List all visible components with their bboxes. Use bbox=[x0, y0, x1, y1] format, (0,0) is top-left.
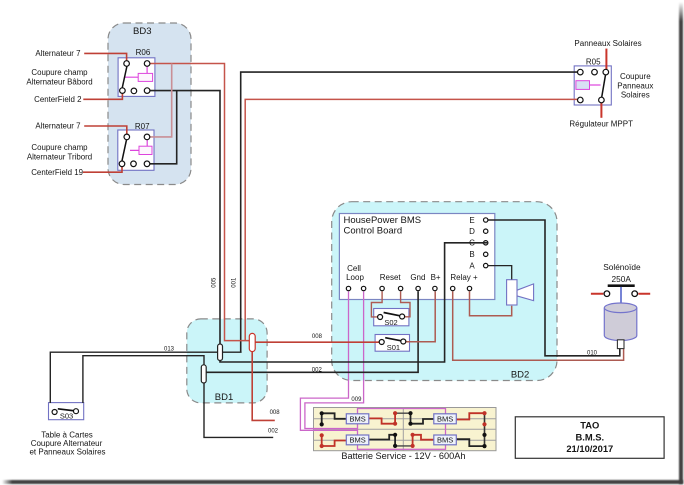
svg-text:Coupure champ: Coupure champ bbox=[31, 143, 88, 152]
svg-text:Alternateur Tribord: Alternateur Tribord bbox=[27, 153, 92, 162]
svg-text:Solaires: Solaires bbox=[621, 91, 650, 100]
svg-text:R05: R05 bbox=[586, 57, 601, 66]
svg-text:BMS: BMS bbox=[437, 414, 453, 423]
svg-text:Control Board: Control Board bbox=[344, 226, 403, 237]
svg-text:S01: S01 bbox=[387, 343, 400, 352]
svg-text:Coupure champ: Coupure champ bbox=[31, 68, 88, 77]
svg-text:Alternateur 7: Alternateur 7 bbox=[35, 122, 80, 131]
svg-text:002: 002 bbox=[268, 428, 279, 434]
svg-text:Reset: Reset bbox=[380, 273, 402, 282]
svg-text:TAO: TAO bbox=[580, 420, 599, 431]
svg-text:et Panneaux Solaires: et Panneaux Solaires bbox=[29, 448, 105, 457]
svg-text:BMS: BMS bbox=[349, 436, 365, 445]
svg-text:Loop: Loop bbox=[346, 273, 364, 282]
svg-text:Solénoïde: Solénoïde bbox=[603, 262, 641, 272]
svg-text:008: 008 bbox=[270, 410, 281, 416]
svg-text:001: 001 bbox=[232, 277, 238, 288]
svg-text:250A: 250A bbox=[612, 274, 632, 284]
svg-text:Alternateur Bâbord: Alternateur Bâbord bbox=[26, 78, 92, 87]
svg-text:BMS: BMS bbox=[349, 414, 365, 423]
svg-text:005: 005 bbox=[211, 277, 217, 288]
svg-text:Régulateur MPPT: Régulateur MPPT bbox=[569, 120, 633, 129]
svg-text:C: C bbox=[469, 239, 475, 248]
svg-text:E: E bbox=[469, 216, 474, 225]
svg-text:Panneaux Solaires: Panneaux Solaires bbox=[574, 39, 641, 48]
svg-text:010: 010 bbox=[587, 350, 598, 356]
svg-text:B: B bbox=[469, 250, 474, 259]
svg-text:013: 013 bbox=[164, 346, 175, 352]
svg-text:S02: S02 bbox=[384, 318, 397, 327]
svg-text:R06: R06 bbox=[136, 48, 151, 57]
svg-text:S03: S03 bbox=[60, 412, 73, 421]
svg-text:D: D bbox=[469, 227, 475, 236]
svg-text:BD3: BD3 bbox=[133, 26, 151, 37]
svg-text:21/10/2017: 21/10/2017 bbox=[566, 443, 613, 454]
svg-text:Coupure: Coupure bbox=[620, 72, 651, 81]
svg-text:Batterie Service - 12V - 600Ah: Batterie Service - 12V - 600Ah bbox=[341, 451, 465, 461]
svg-text:Gnd: Gnd bbox=[410, 273, 425, 282]
svg-text:BMS: BMS bbox=[437, 436, 453, 445]
svg-text:Panneaux: Panneaux bbox=[617, 81, 653, 90]
svg-text:Alternateur 7: Alternateur 7 bbox=[35, 49, 80, 58]
svg-text:BD2: BD2 bbox=[511, 370, 529, 381]
svg-text:B.M.S.: B.M.S. bbox=[575, 432, 604, 443]
svg-text:CenterField 19: CenterField 19 bbox=[31, 168, 83, 177]
svg-text:002: 002 bbox=[312, 367, 323, 373]
svg-text:BD1: BD1 bbox=[215, 392, 233, 403]
svg-text:R07: R07 bbox=[135, 122, 150, 131]
svg-text:HousePower BMS: HousePower BMS bbox=[344, 215, 422, 226]
svg-text:008: 008 bbox=[312, 334, 323, 340]
svg-text:Relay +: Relay + bbox=[450, 273, 478, 282]
svg-text:A: A bbox=[469, 262, 475, 271]
svg-text:009: 009 bbox=[351, 397, 362, 403]
svg-text:Cell: Cell bbox=[347, 264, 361, 273]
svg-text:CenterField 2: CenterField 2 bbox=[34, 95, 81, 104]
svg-text:B+: B+ bbox=[431, 273, 441, 282]
